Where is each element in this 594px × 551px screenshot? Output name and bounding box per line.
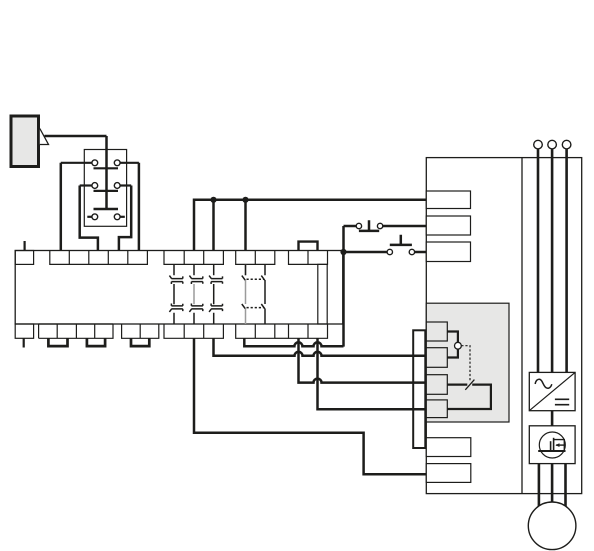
IGBT arrow (556, 444, 564, 446)
drive terminal box 1 (426, 191, 470, 209)
wire branch aux1 (244, 200, 247, 251)
bottom terminals group 1 (39, 324, 113, 338)
drive (frequency converter) outline (426, 158, 581, 494)
inverter U2 (IGBT) (529, 426, 575, 464)
bottom jumper bracket 1 (48, 338, 67, 346)
sensor S1 (actuator, gray box) (11, 116, 39, 167)
relay contact column 1 (169, 264, 182, 324)
terminal stub bottom-left (23, 338, 25, 347)
rectifier U1 (529, 372, 575, 410)
bottom terminals group 3 (relay outputs 14/24/34) (164, 324, 223, 338)
relay contact column 3 (209, 264, 222, 324)
wire switch row1-left to terminal block (60, 163, 63, 251)
motor output line U (538, 464, 541, 507)
contact circle row2 left (92, 183, 98, 189)
supply terminal L1 (534, 140, 543, 149)
junction node (340, 249, 346, 255)
drive lower box B1 (426, 438, 471, 457)
wire V2+W3 to drive STO (318, 338, 427, 409)
contact row 1 right lead (120, 162, 139, 164)
STO terminal T1 (426, 322, 447, 341)
wire switch row1-right to terminal block (138, 163, 141, 251)
STO safety block (gray) (426, 303, 509, 422)
contact circle row3 right (114, 214, 120, 220)
contact row 3 left lead (87, 216, 92, 218)
junction node (242, 197, 248, 203)
rectifier DC bars (555, 399, 569, 404)
relay contact column 2 (189, 264, 202, 324)
IGBT gate bar (550, 441, 552, 450)
STO relay coil wiring (447, 332, 458, 358)
supply terminal L2 (548, 140, 557, 149)
contact circle row1 right (114, 160, 120, 166)
bottom terminals group 5 (289, 324, 328, 338)
bottom jumper bracket 2 (87, 338, 105, 346)
top terminals group 1 (50, 251, 148, 265)
drive terminal box 2 (426, 216, 470, 235)
bottom terminals group 2 (122, 324, 159, 338)
internal channel rectangle (318, 264, 327, 324)
wire switch row2-left to terminal block (80, 186, 98, 251)
bottom terminals group 4 (aux) (236, 324, 275, 338)
STO terminal T3 (426, 375, 447, 395)
contact row 1 bridge bar (94, 167, 119, 169)
STO terminal T2 (426, 348, 447, 368)
top jumper bracket (299, 242, 318, 251)
wire V1+W2 to drive STO (with hop) (299, 338, 427, 382)
wire aux2 link (275, 337, 289, 339)
contact slash (465, 380, 474, 390)
mechanical link (dashed) (461, 346, 470, 381)
contact circle row3 left (92, 214, 98, 220)
STO terminal T4 (426, 400, 447, 418)
phase line L2 (551, 149, 554, 373)
IGBT channel bar (553, 438, 555, 452)
terminal stub top-left (24, 241, 26, 251)
pushbutton S2 (NC, off) (344, 220, 427, 231)
contact row 2 left lead (80, 184, 92, 186)
top terminals group 2 (relay outputs 13/23/33) (164, 251, 223, 265)
wire: relay supply to drive terminal 1 (194, 200, 426, 251)
contact row 2 bridge bar (94, 190, 119, 192)
motor output line V (551, 464, 554, 503)
contact circle row2 right (114, 183, 120, 189)
aux contact pair (linked, dashed) (242, 264, 265, 324)
connector block (413, 330, 425, 448)
wire actuator to switch plunger (45, 135, 107, 138)
actuator flag (40, 129, 49, 145)
safety relay terminal block outline (15, 251, 343, 325)
motor M1 (528, 502, 576, 550)
drive internal divider (521, 158, 523, 494)
position switch B1 enclosure (84, 150, 126, 227)
wire switch row2-right to terminal block (119, 186, 131, 251)
contact row 2 right lead (120, 184, 131, 186)
plunger T-bar (94, 208, 119, 211)
wire W1: relay 24 to drive STO (with hops) (214, 338, 427, 356)
phase line L1 (537, 149, 540, 373)
top terminals group 4 (289, 251, 328, 265)
junction node (210, 197, 216, 203)
top terminal A1 (15, 251, 327, 339)
rectifier sine symbol (535, 379, 552, 388)
pushbutton S3 (NO, on) (344, 235, 427, 252)
contact circle row1 left (92, 160, 98, 166)
DC link wire (551, 411, 554, 426)
wire W4: relay 14 to drive digital input (194, 338, 426, 474)
phase line L3 (565, 149, 568, 373)
motor output line W (564, 464, 567, 507)
STO feedback contact wiring (447, 385, 491, 409)
wire pushbutton common (342, 226, 345, 347)
STO relay coil (455, 342, 462, 349)
contact row 1 left lead (61, 162, 92, 164)
switch plunger line (105, 136, 108, 209)
wire branch col3 (212, 200, 215, 251)
wire common to aux contact (with hops) (244, 338, 343, 346)
IGBT drain path (554, 440, 565, 451)
bottom terminal A2 (15, 324, 33, 338)
drive lower box B2 (426, 464, 471, 483)
contact row 3 right lead (120, 216, 125, 218)
top terminals group 3 (aux) (236, 251, 275, 265)
drive terminal box 3 (426, 242, 470, 262)
bottom jumper bracket 3 (131, 338, 149, 346)
IGBT source line (538, 450, 565, 452)
supply terminal L3 (562, 140, 571, 149)
